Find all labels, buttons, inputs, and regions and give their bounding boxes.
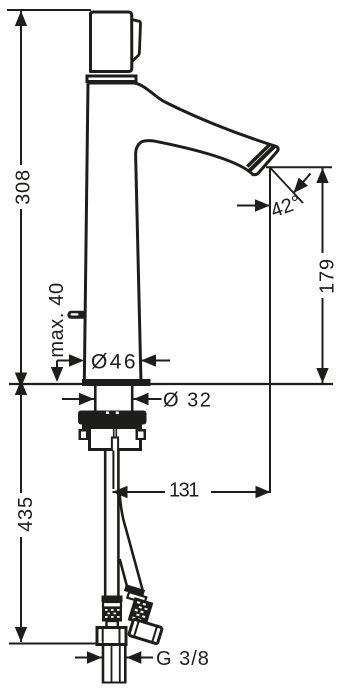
shaft below deck: [94, 386, 97, 412]
hose B white collar: [127, 592, 146, 603]
hose A crimp: [102, 607, 122, 622]
dimension 308 arrow down: [15, 373, 27, 388]
svg-text:Ø46: Ø46: [91, 351, 138, 374]
washer bar: [82, 425, 142, 430]
wire top extension line: [7, 9, 91, 11]
dimension 435 line lower: [20, 537, 22, 642]
handle body: [91, 12, 132, 72]
handle collar: [87, 76, 136, 82]
lever temperature pin: [68, 311, 87, 319]
deck line: [9, 383, 333, 385]
aerator stripe 2: [247, 144, 270, 166]
angle 42 arrow diagonal: [294, 174, 311, 194]
dimension 308 line lower: [20, 209, 22, 383]
dimension 435 arrow down: [15, 627, 27, 642]
dimension d46 arrow left-side: [69, 354, 84, 366]
right tab: [136, 429, 147, 440]
hose A neck: [107, 621, 118, 629]
handle button bump: [132, 20, 141, 63]
dimension max40 arrow down: [51, 367, 63, 382]
hose B left edge visible as middle line: [112, 451, 114, 490]
hose A hex nut: [97, 628, 126, 645]
hose A crimp top band: [102, 596, 123, 603]
legs inner edges: [113, 429, 115, 437]
dimension 308 line upper: [20, 11, 22, 165]
svg-text:G 3/8: G 3/8: [156, 648, 210, 670]
hose B left edge lower part: [120, 559, 128, 590]
notch between legs: [111, 437, 119, 450]
hose A right edge: [117, 451, 120, 600]
dimension 435 arrow up: [15, 380, 27, 395]
svg-text:max. 40: max. 40: [46, 282, 68, 357]
svg-text:179: 179: [317, 258, 339, 294]
hose B nut: [129, 619, 163, 644]
hose B crimp: [128, 597, 154, 626]
node spout tip horizontal extension: [266, 166, 332, 168]
dimension 308 arrow up: [15, 11, 27, 26]
mounting flange nut: [78, 411, 147, 425]
hose A left edge: [104, 451, 107, 600]
dimension max40 leader: [57, 361, 82, 381]
dimension 435 line upper: [20, 385, 22, 493]
hose B right edge: [119, 489, 143, 592]
svg-text:435: 435: [15, 496, 37, 532]
svg-text:131: 131: [169, 479, 199, 501]
dimension 131: [113, 491, 166, 493]
wire bottom extension line: [9, 643, 97, 645]
angle 42 reference diagonal: [270, 168, 303, 204]
svg-text:308: 308: [13, 169, 35, 205]
hose B collar band: [124, 584, 145, 597]
dimension 179: [322, 168, 324, 253]
faucet body and spout outline: [84, 83, 278, 383]
node spout tip vertical extension: [269, 167, 271, 493]
svg-text:Ø 32: Ø 32: [163, 389, 212, 411]
aerator stripe 1: [249, 146, 275, 172]
hose A crimp collar: [103, 602, 121, 608]
dimension d32 arrows: [62, 398, 94, 400]
dimension G3/8 arrows: [75, 657, 102, 659]
dimension d46 arrow right-side: [141, 360, 170, 362]
legs block: [90, 426, 141, 450]
base plate bar: [82, 379, 151, 386]
left tab: [79, 429, 89, 440]
angle 42 arrow horizontal: [237, 205, 270, 207]
threaded pipe: [102, 645, 105, 683]
